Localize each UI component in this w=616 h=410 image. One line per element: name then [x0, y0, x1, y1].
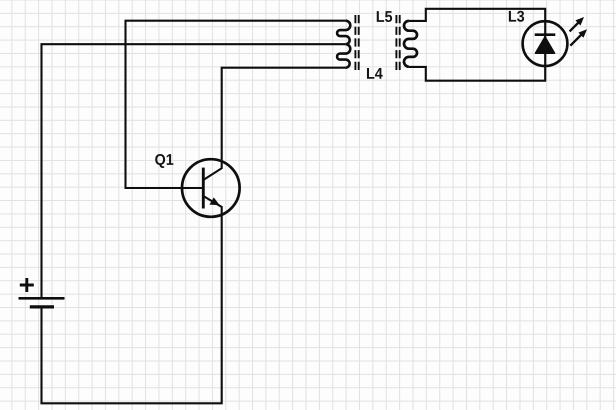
LED L3 [523, 17, 587, 66]
label L4 [367, 68, 383, 79]
Q1 emitter arrow [210, 198, 218, 204]
label L5 [377, 11, 392, 22]
wire: Q1 emitter to battery minus (bottom loop) [42, 196, 222, 403]
battery long plate (+) [19, 297, 65, 300]
wire: L4 bottom terminal to Q1 collector [204, 68, 346, 180]
label Q1 [155, 154, 173, 168]
battery plus sign [20, 278, 34, 292]
L5 core dashed lines [396, 15, 399, 73]
Q1 circle [182, 159, 240, 217]
inductor L5 (3-turn coil, humps left) [404, 21, 417, 67]
wire: L5 to LED loop rectangle [409, 9, 545, 81]
L4 core dashed lines [355, 15, 358, 73]
Q1 base bar [202, 168, 205, 209]
L3 cathode bar [535, 33, 556, 36]
inductor L4 (two stacked 2-turn coils, center tap) [337, 21, 350, 68]
label L3 [509, 11, 524, 22]
transistor Q1 [182, 159, 240, 217]
battery V1 [19, 278, 65, 307]
L3 diode triangle [535, 37, 554, 53]
wire: battery plus to L4 center tap [42, 44, 346, 297]
wire: L4 top terminal to Q1 base (left loop) [126, 21, 346, 188]
battery short plate (-) [30, 305, 54, 308]
L3 light arrow 1 [570, 17, 584, 31]
L3 light arrow 2 [570, 29, 587, 46]
L3 circle [523, 21, 568, 66]
